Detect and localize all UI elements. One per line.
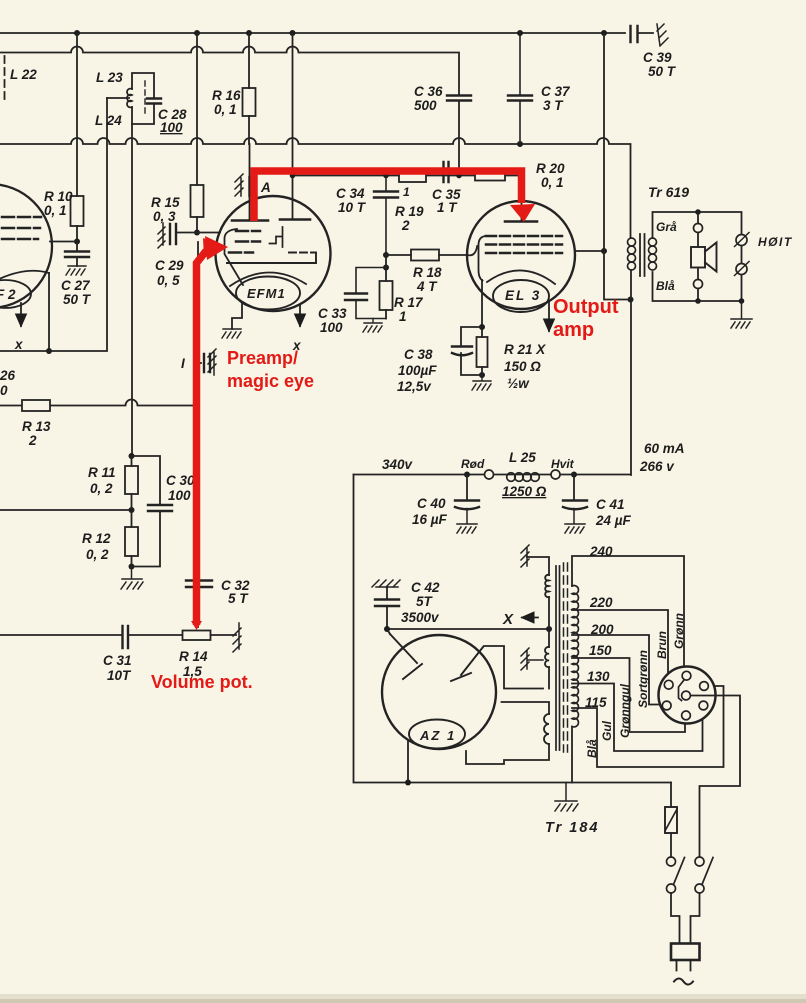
capacitor C39 and chassis	[631, 26, 638, 42]
wire bus 3 (B+ rail) with hops, dot at 520, corner down at 630.5	[0, 138, 631, 238]
AZ1 label oval	[409, 720, 465, 749]
fuse	[670, 783, 672, 808]
svg-text:50 T: 50 T	[648, 64, 677, 79]
EFM1 cathode lead arrow to X	[299, 305, 301, 326]
resistor R15	[191, 185, 204, 217]
svg-text:1250 Ω: 1250 Ω	[502, 484, 547, 499]
transformer Tr619 secondary winding	[649, 238, 657, 270]
speaker driver	[697, 233, 699, 248]
svg-text:F 2: F 2	[0, 287, 16, 302]
plug key mark	[679, 680, 685, 701]
svg-text:50 T: 50 T	[63, 292, 92, 307]
F2 anode lead down to rail	[48, 273, 50, 351]
wire grid into EFM1	[197, 232, 220, 234]
wire vertical x=77 from bus1 to R10	[76, 33, 78, 196]
node grid junction F2	[74, 239, 80, 245]
capacitor C42 with top ground	[372, 580, 400, 587]
ground below EFM1	[222, 329, 241, 338]
power transformer primary winding middle	[545, 647, 549, 667]
svg-text:0, 1: 0, 1	[214, 102, 237, 117]
svg-text:R 21 X: R 21 X	[504, 342, 546, 357]
terminal HOIT bottom	[736, 264, 747, 275]
svg-text:R 17: R 17	[394, 295, 424, 310]
power transformer heater winding lower	[502, 702, 550, 714]
F2 label oval	[0, 280, 31, 308]
svg-text:Preamp/: Preamp/	[227, 348, 298, 368]
wire X line from C42 to power transformer	[387, 628, 549, 630]
svg-text:12,5v: 12,5v	[397, 379, 432, 394]
svg-text:C 29: C 29	[155, 258, 184, 273]
svg-text:Rød: Rød	[461, 457, 485, 471]
svg-text:Blå: Blå	[585, 739, 599, 758]
svg-text:L 23: L 23	[96, 70, 123, 85]
capacitor I (grid block) with chassis	[198, 362, 201, 364]
node C34/R18 junction	[383, 252, 389, 271]
svg-text:R 18: R 18	[413, 265, 442, 280]
svg-text:266 v: 266 v	[639, 459, 675, 474]
svg-text:Grønn: Grønn	[672, 613, 686, 649]
AZ1 left plate	[390, 634, 422, 679]
tube F2 (clipped at left edge)	[0, 184, 52, 308]
svg-text:Grønngul: Grønngul	[618, 683, 632, 738]
capacitor C35	[444, 162, 449, 182]
wire tap 130	[572, 684, 703, 752]
capacitor C32 on line	[186, 581, 212, 588]
resistor R19 on coupling line	[399, 170, 426, 182]
svg-text:Hvit: Hvit	[551, 457, 575, 471]
ground below C27	[66, 266, 86, 275]
svg-text:R 19: R 19	[395, 204, 424, 219]
svg-text:X: X	[502, 611, 514, 628]
wire y=510 to R11/R12 junction	[0, 509, 132, 511]
svg-text:100: 100	[320, 320, 343, 335]
wire under red annotation x=198	[197, 242, 199, 627]
EL3 anode bar	[505, 220, 537, 223]
svg-text:magic eye: magic eye	[227, 371, 314, 391]
EFM1 grid dashes	[229, 231, 260, 253]
svg-text:½w: ½w	[507, 376, 530, 391]
svg-text:L 22: L 22	[10, 67, 37, 82]
node R21 top junction	[479, 324, 485, 378]
svg-text:R 13: R 13	[22, 419, 51, 434]
svg-text:C 41: C 41	[596, 497, 625, 512]
wire secondary to speaker box	[653, 212, 742, 301]
svg-text:16 µF: 16 µF	[412, 512, 448, 527]
svg-text:C 37: C 37	[541, 84, 571, 99]
svg-text:HØIT: HØIT	[758, 235, 793, 249]
svg-text:Output: Output	[553, 296, 619, 318]
resistor R20	[475, 169, 505, 181]
arrow X pointing left	[522, 617, 538, 619]
svg-text:4 T: 4 T	[416, 279, 438, 294]
node dots bus1	[74, 30, 607, 36]
svg-text:2: 2	[28, 433, 37, 448]
svg-text:C 33: C 33	[318, 306, 347, 321]
svg-text:C 34: C 34	[336, 186, 365, 201]
terminal Hvit	[551, 470, 560, 479]
svg-text:0, 2: 0, 2	[86, 547, 109, 562]
wire R13 line	[0, 400, 196, 406]
potentiometer R14	[183, 631, 211, 641]
svg-text:0: 0	[0, 383, 8, 398]
chassis hatch middle winding	[521, 648, 543, 670]
wire anode top-cap down to anode bar (under red)	[249, 144, 251, 219]
tube EL3 envelope	[467, 201, 575, 309]
svg-text:R 15: R 15	[151, 195, 180, 210]
svg-text:C 27: C 27	[61, 278, 91, 293]
svg-text:60 mA: 60 mA	[644, 441, 685, 456]
EL3 label oval	[493, 280, 549, 312]
wire EL3 anode to plate line	[575, 250, 604, 252]
EFM1 grid rail and lead to pin	[225, 229, 244, 285]
capacitor C36	[447, 96, 471, 101]
AZ1 plate lead right to winding	[484, 646, 543, 689]
svg-text:24 µF: 24 µF	[595, 513, 632, 528]
svg-text:R 20: R 20	[536, 161, 565, 176]
coil L22 (dashed stub)	[4, 56, 6, 104]
red line anode to EL3	[254, 171, 522, 221]
wire tap 240	[572, 556, 684, 671]
svg-text:340v: 340v	[382, 457, 414, 472]
svg-text:0, 1: 0, 1	[541, 175, 564, 190]
svg-text:26: 26	[0, 368, 16, 383]
red signal line volume pot to grid	[197, 251, 207, 625]
capacitor A (top-cap bypass) with chassis hatch	[235, 174, 243, 196]
ground stub Tr184	[555, 783, 578, 812]
svg-text:L 25: L 25	[509, 450, 536, 465]
svg-text:220: 220	[589, 595, 613, 610]
svg-text:1 T: 1 T	[437, 200, 458, 215]
capacitor C29 with chassis hatch	[158, 223, 165, 248]
EFM1 base arc	[230, 272, 306, 286]
voltage selector plug	[659, 667, 716, 724]
wire top bus 2 with hops, ends turning down at x=459	[0, 47, 459, 96]
wire rail y=351 turning up at x=107	[0, 98, 107, 351]
wire x=459 from C36 down to coupling line	[458, 101, 460, 176]
capacitor C27	[65, 252, 89, 258]
svg-text:EFM1: EFM1	[247, 286, 286, 301]
power transformer core	[556, 566, 560, 750]
coil L24 connecting wire	[107, 97, 129, 99]
capacitor C34	[374, 176, 398, 256]
svg-text:0, 3: 0, 3	[153, 209, 176, 224]
svg-text:C 38: C 38	[404, 347, 433, 362]
speaker terminal bottom	[697, 268, 699, 280]
wire grid of F2	[50, 241, 77, 243]
tube EFM1 envelope	[216, 196, 331, 311]
power transformer primary winding upper	[545, 575, 549, 597]
svg-text:x: x	[14, 337, 23, 352]
ground below R21	[472, 375, 491, 390]
svg-text:240: 240	[589, 544, 613, 559]
svg-text:AZ 1: AZ 1	[419, 728, 456, 743]
svg-text:130: 130	[587, 669, 610, 684]
wire tap 150	[572, 658, 685, 732]
speaker terminal top	[697, 212, 699, 224]
svg-text:amp: amp	[553, 319, 594, 341]
wire plate line x=604 from bus1 down, elbow to transformer	[604, 33, 631, 300]
transformer Tr619 primary winding	[628, 238, 636, 270]
svg-text:Tr 619: Tr 619	[648, 184, 689, 200]
terminal HOIT top	[736, 235, 747, 246]
ground below R12	[121, 567, 143, 590]
capacitor C28 plates	[147, 99, 161, 104]
svg-text:R 16: R 16	[212, 88, 241, 103]
svg-text:Volume pot.: Volume pot.	[151, 672, 253, 692]
red arrowhead at grid	[203, 238, 226, 258]
svg-text:C 36: C 36	[414, 84, 443, 99]
EFM1 anode bar right	[280, 218, 310, 221]
coil L23 with core and C28	[132, 73, 154, 124]
terminal Rod	[485, 470, 494, 479]
svg-text:C 30: C 30	[166, 473, 195, 488]
svg-text:1: 1	[403, 185, 410, 199]
svg-text:115: 115	[585, 695, 607, 710]
capacitor C40 (electrolytic) to ground	[466, 475, 468, 501]
EFM1 target bar	[227, 253, 316, 264]
svg-text:R 11: R 11	[88, 465, 116, 480]
svg-text:C 42: C 42	[411, 580, 440, 595]
node rail junction	[46, 348, 52, 354]
svg-text:2: 2	[401, 218, 410, 233]
AZ1 right plate	[451, 647, 483, 681]
red arrowhead into EL3	[510, 204, 535, 222]
svg-text:Brun: Brun	[655, 631, 669, 659]
wire PSU box left edge and bottom	[354, 475, 672, 783]
wire coupling line y=173.5 (under red annotation)	[293, 175, 522, 177]
choke L25	[507, 473, 540, 482]
svg-text:Sortgrønn: Sortgrønn	[636, 650, 650, 708]
resistor R17	[385, 255, 387, 281]
wire tap 200	[572, 635, 661, 705]
mains plug body	[671, 944, 700, 961]
F2 cathode lead with arrow to X	[20, 303, 22, 326]
svg-text:1: 1	[399, 309, 407, 324]
svg-text:A: A	[260, 180, 271, 195]
resistor R11	[131, 456, 133, 466]
svg-text:Grå: Grå	[656, 220, 677, 234]
tube AZ1 envelope	[382, 635, 496, 749]
wire top bus 1 (AVC line)	[0, 32, 625, 34]
resistor R10	[71, 196, 84, 226]
EFM1 grid pin to ground	[232, 302, 242, 329]
svg-text:5T: 5T	[416, 594, 434, 609]
wire vertical x=197 from bus1 to R15	[196, 33, 198, 185]
svg-text:I: I	[181, 356, 185, 371]
resistor R12	[125, 527, 138, 556]
EL3 grid rail	[468, 246, 478, 255]
svg-text:Gul: Gul	[600, 720, 614, 741]
EL3 grid dashes	[486, 236, 562, 253]
wire tap 220	[572, 610, 668, 681]
svg-text:5 T: 5 T	[228, 591, 249, 606]
resistor R21	[481, 327, 483, 375]
svg-text:Blå: Blå	[656, 279, 675, 293]
resistor R18	[411, 250, 439, 261]
switch right pole	[695, 857, 704, 866]
transformer Tr619 core	[640, 234, 645, 276]
svg-text:R 14: R 14	[179, 649, 208, 664]
svg-text:150: 150	[589, 643, 612, 658]
F2 cathode arc	[0, 271, 49, 281]
wire center pin to switch right pole	[690, 696, 740, 858]
capacitor C38 (electrolytic)	[461, 327, 482, 375]
wire B+ rail 340v-266v	[354, 474, 631, 476]
svg-text:100: 100	[160, 120, 183, 135]
wire volume line y=635	[0, 634, 122, 636]
svg-text:150 Ω: 150 Ω	[504, 359, 541, 374]
wire x=521.5 down to EL3 (under red)	[521, 176, 523, 222]
svg-text:200: 200	[590, 622, 614, 637]
EL3 cathode lead to R21 junction	[481, 280, 483, 327]
svg-text:0, 2: 0, 2	[90, 481, 113, 496]
svg-text:10 T: 10 T	[338, 200, 367, 215]
EFM1 anode bar left	[232, 219, 268, 222]
svg-text:0, 5: 0, 5	[157, 273, 180, 288]
svg-text:100µF: 100µF	[398, 363, 437, 378]
ground below R17/C33	[363, 319, 382, 333]
capacitor C31	[123, 626, 129, 648]
svg-text:Tr 184: Tr 184	[545, 820, 599, 836]
EFM1 deflection electrode	[270, 227, 283, 247]
AZ1 filament lead to box bottom	[407, 741, 409, 783]
svg-text:R 10: R 10	[44, 189, 73, 204]
svg-text:0, 1: 0, 1	[44, 203, 67, 218]
capacitor C41 (electrolytic) to ground	[573, 475, 575, 501]
chassis hatch upper winding	[521, 545, 529, 567]
capacitor C33	[345, 268, 386, 319]
capacitor C30	[132, 456, 173, 567]
wire vertical x=249 from bus1 to R16	[248, 33, 250, 88]
EL3 base arc	[487, 270, 555, 284]
switch left pole	[667, 857, 676, 866]
wire x=131.5 down to R11 junction	[131, 124, 133, 456]
svg-text:EL 3: EL 3	[505, 288, 541, 303]
EL3 second cathode lead arrow to X	[548, 301, 550, 331]
wires switch to mains plug	[671, 893, 680, 944]
svg-text:3500v: 3500v	[401, 610, 440, 625]
svg-text:10T: 10T	[107, 668, 132, 683]
svg-text:R 12: R 12	[82, 531, 111, 546]
power transformer secondary winding (tapped)	[572, 586, 578, 727]
capacitor C37	[508, 33, 532, 144]
svg-text:C 40: C 40	[417, 496, 446, 511]
svg-text:C 31: C 31	[103, 653, 132, 668]
ground below speaker box	[731, 301, 752, 328]
wire tap 115	[572, 686, 724, 767]
AZ1 plate lead left (to X wire)	[387, 629, 390, 634]
mains tilde	[674, 979, 693, 985]
wire to R18	[386, 254, 411, 256]
chassis hatch right of R14	[233, 623, 241, 652]
svg-text:100: 100	[168, 488, 191, 503]
svg-text:C 39: C 39	[643, 50, 672, 65]
EFM1 label oval	[236, 277, 300, 310]
svg-text:500: 500	[414, 98, 437, 113]
wire vertical x=292.5 from bus1 to EFM1	[292, 33, 294, 220]
resistor R13	[22, 400, 50, 411]
svg-text:3 T: 3 T	[543, 98, 564, 113]
svg-text:L 24: L 24	[95, 113, 122, 128]
wire Bla winding bottom to fuse feed	[571, 727, 573, 783]
mains prongs	[677, 960, 691, 971]
plug pins	[682, 671, 691, 680]
resistor R16	[243, 88, 256, 116]
F2 grid dashes	[2, 217, 41, 239]
node EFM1 grid junction	[194, 230, 200, 236]
